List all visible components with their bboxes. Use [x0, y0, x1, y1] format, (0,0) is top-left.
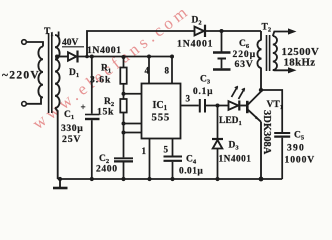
svg-text:18kHz: 18kHz [284, 57, 316, 69]
watermark www.elecfans.com [29, 0, 194, 133]
svg-text:8: 8 [165, 66, 170, 76]
op-amp timer IC1 555 box [142, 84, 181, 139]
label 3.6k [90, 75, 111, 86]
svg-text:C1: C1 [64, 110, 74, 121]
transformer T1 primary winding [38, 47, 43, 98]
transformer T2 secondary winding [273, 36, 277, 70]
capacitor C2 [114, 158, 133, 161]
svg-text:390: 390 [287, 143, 305, 154]
wire T1 secondary bottom to ground rail [55, 108, 58, 179]
svg-text:~220V: ~220V [2, 70, 40, 82]
label 1N4001 top [177, 39, 213, 50]
label 25V [62, 134, 81, 145]
input terminal lower [22, 102, 27, 107]
label R2 [104, 97, 114, 108]
svg-text:1: 1 [142, 146, 147, 156]
label 0.01u [179, 167, 203, 177]
wire pin 2 stub [124, 132, 142, 134]
label T1 [44, 27, 54, 38]
svg-text:2400: 2400 [96, 164, 118, 175]
label C6 [239, 39, 250, 50]
label 1N4001 bottom [219, 155, 252, 165]
capacitor C5 [274, 133, 290, 179]
label C1 [64, 110, 74, 121]
svg-text:1000V: 1000V [285, 155, 316, 166]
svg-text:0.01µ: 0.01µ [179, 167, 203, 177]
node pin7 junction [122, 92, 126, 96]
wire collector to snubber C5 [261, 90, 282, 132]
node pin 4 [147, 55, 151, 59]
svg-text:C3: C3 [200, 75, 211, 86]
node C1 top junction [90, 55, 94, 59]
transformer T1 core [49, 33, 52, 113]
pin label 3 [186, 94, 191, 104]
svg-text:C4: C4 [186, 155, 197, 166]
label D3 [229, 141, 240, 152]
node riser junction [85, 55, 89, 59]
pin label 1 [142, 146, 147, 156]
label 220u [233, 49, 257, 60]
node rail pin1 [147, 177, 151, 181]
svg-text:3: 3 [186, 94, 191, 104]
svg-text:IC1: IC1 [153, 100, 168, 112]
wire D2 to T2 [206, 30, 261, 32]
LED LED1 [229, 101, 247, 111]
label 3DK308A vertical [261, 110, 272, 155]
node rail C4 [170, 177, 174, 181]
capacitor C1 wire bottom [91, 120, 93, 179]
wire C3 to LED node [206, 105, 229, 107]
wire riser to D2 line [87, 31, 194, 57]
wire pin 5 to C4 [172, 139, 174, 156]
label 15k [97, 107, 114, 118]
capacitor C6 [213, 31, 231, 70]
node T1 secondary tap [55, 55, 59, 59]
svg-text:3.6k: 3.6k [90, 75, 111, 86]
label 40V [62, 38, 84, 48]
svg-text:1N4001: 1N4001 [177, 39, 213, 50]
node rail T1 [58, 177, 62, 181]
svg-text:T2: T2 [262, 23, 272, 34]
label C2 [99, 154, 109, 165]
wire pin 8 [171, 57, 173, 84]
node R1 top [122, 55, 126, 59]
node rail emitter [259, 177, 264, 182]
wire T2 secondary output upper [273, 28, 297, 36]
label R1 [101, 64, 111, 75]
label 390 [287, 143, 305, 154]
label VT1 [267, 100, 283, 111]
svg-text:1N4001: 1N4001 [87, 45, 122, 56]
svg-text:D2: D2 [192, 16, 202, 27]
label LED1 [219, 116, 242, 127]
node LED junction [216, 104, 220, 108]
svg-text:4: 4 [145, 66, 150, 76]
ground symbol [53, 179, 68, 188]
node rail D3 [215, 177, 219, 181]
label 1000V [285, 155, 316, 166]
capacitor C1 wire top [91, 57, 93, 114]
transformer T2 primary winding [257, 31, 261, 90]
capacitor C2 wire bottom [123, 163, 125, 180]
node pin2 junction [122, 131, 126, 135]
label 12500V [282, 46, 320, 58]
label 1N4001 left [87, 45, 122, 56]
diode D3 [212, 106, 223, 180]
resistor R2 [120, 94, 126, 124]
pin label 5 [164, 145, 169, 155]
node pin6 junction [122, 122, 126, 126]
wire pin 3 [181, 105, 199, 107]
capacitor C1 [81, 102, 100, 119]
label C3 [200, 75, 211, 86]
LED1 emission arrows [232, 86, 246, 99]
wire pin 1 [149, 139, 151, 180]
wire input lower to T1 primary [26, 98, 41, 104]
svg-text:25V: 25V [62, 134, 81, 145]
label 330u [61, 123, 83, 134]
svg-text:0.1µ: 0.1µ [193, 87, 213, 97]
wire +40V rail [79, 56, 173, 58]
capacitor C4 [164, 157, 183, 180]
label D1 [69, 68, 79, 79]
capacitor C2 wire top [123, 124, 125, 158]
svg-text:5: 5 [164, 145, 169, 155]
node rail C2 [121, 177, 125, 181]
label 2400 [96, 164, 118, 175]
node VT1 collector junction [259, 88, 263, 92]
svg-text:D1: D1 [69, 68, 79, 79]
svg-text:15k: 15k [97, 107, 114, 118]
svg-text:1N4001: 1N4001 [219, 155, 252, 165]
capacitor C3 [200, 99, 205, 113]
node pin 8 [170, 55, 174, 59]
svg-text:3DK308A: 3DK308A [261, 110, 272, 155]
ground rail [58, 178, 283, 180]
label D2 [192, 16, 202, 27]
svg-text:330µ: 330µ [61, 123, 83, 134]
diode D2 [195, 25, 206, 37]
svg-text:+: + [81, 102, 86, 112]
node rail C1 [90, 177, 94, 181]
wire T2 secondary output lower [273, 67, 297, 73]
wire VT1 emitter to ground [260, 122, 262, 179]
label C4 [186, 155, 197, 166]
label T2 [262, 23, 272, 34]
node C6 top [220, 29, 224, 33]
label 63V [235, 59, 254, 70]
input terminal upper [22, 40, 27, 45]
pin label 4 [145, 66, 150, 76]
transformer T1 secondary winding [55, 32, 60, 109]
diode D1 [68, 51, 78, 63]
label 18kHz [284, 57, 316, 69]
transformer T2 core [267, 35, 270, 71]
resistor R1 [120, 57, 126, 95]
label 0.1u [193, 87, 213, 97]
pin label 8 [165, 66, 170, 76]
wire tap to D1 [57, 56, 68, 58]
svg-text:63V: 63V [235, 59, 254, 70]
wire input upper to T1 primary [26, 42, 43, 47]
svg-text:C5: C5 [294, 131, 305, 142]
svg-text:D3: D3 [229, 141, 240, 152]
label C5 [294, 131, 305, 142]
svg-text:555: 555 [152, 112, 171, 124]
svg-text:LED1: LED1 [219, 116, 242, 127]
svg-text:T1: T1 [44, 27, 54, 38]
wire pin 4 [148, 57, 150, 84]
transistor Q VT1 [247, 92, 261, 122]
wire pin 6 stub [124, 123, 142, 125]
wire pin 7 stub [124, 93, 142, 95]
label ~220V [2, 70, 40, 82]
